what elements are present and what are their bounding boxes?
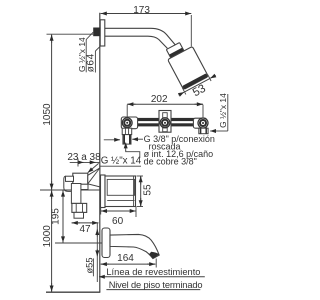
valve outlet cone (88, 168, 100, 187)
center fitting screw (160, 118, 170, 128)
svg-text:202: 202 (151, 94, 168, 105)
extension line arm height (47, 33, 94, 35)
spout elbow horizontal tube (66, 176, 74, 181)
leader to thread block (86, 32, 93, 39)
bath spout (110, 234, 159, 258)
center fitting bottom tab (163, 128, 168, 132)
svg-text:G ½"x 14: G ½"x 14 (101, 156, 142, 167)
dimension 1000 line (51, 190, 53, 291)
dimension 53 ticks (182, 88, 185, 94)
dimension 47 line (72, 222, 99, 224)
center fitting top tab (163, 113, 168, 118)
dimension 55 ext lines (137, 175, 144, 177)
connector dark ring band (169, 48, 183, 58)
transfer valve body (105, 176, 136, 207)
svg-text:1000: 1000 (42, 225, 53, 248)
dimension 1050 line (51, 35, 53, 190)
center fitting body (159, 111, 171, 133)
floor line (46, 291, 100, 293)
svg-text:1050: 1050 (42, 103, 53, 126)
transfer valve inner band (107, 200, 134, 202)
supply pipe bars left pair (135, 118, 160, 121)
svg-text:195: 195 (51, 208, 62, 225)
wall line (99, 13, 101, 293)
dimension 55 line (140, 176, 142, 207)
svg-text:164: 164 (117, 253, 134, 264)
left fitting nipple threaded (122, 128, 132, 134)
nipple pointer arrow right / leader G 3/8 (132, 138, 143, 140)
head spray face dark band (182, 73, 208, 89)
label underline top left (85, 40, 87, 73)
svg-text:Línea de revestimiento: Línea de revestimiento (106, 267, 200, 277)
svg-text:173: 173 (133, 5, 150, 16)
underline diameter 55 (92, 258, 94, 276)
spout elbow outer curve (64, 176, 72, 191)
spout wall flange (102, 228, 110, 258)
valve outlet funnel box (73, 173, 88, 184)
leader to flange (95, 46, 100, 51)
combined ext and diam55 line (96, 223, 98, 282)
shower head group (157, 35, 221, 106)
right elbow fitting (193, 118, 206, 128)
left fitting nipple lower (123, 135, 131, 145)
spout elbow nut (72, 203, 87, 212)
diagonal leader to funnel corner (88, 163, 99, 172)
spout tip dark band (149, 252, 159, 259)
dimension 60 ext lines (100, 208, 102, 215)
extension line head top (190, 15, 192, 47)
label underline 64 (94, 51, 96, 73)
transfer valve inner recess (107, 179, 134, 195)
dimension 53 line (185, 79, 210, 92)
supply pipe bars right pair (170, 118, 194, 121)
svg-text:53: 53 (191, 83, 208, 100)
dimension 173 line (101, 13, 192, 15)
right fitting nipple (199, 128, 208, 134)
shower head body (168, 46, 209, 89)
extension line 23a38 (77, 159, 79, 167)
dimension 202 line (127, 103, 203, 105)
elbow body right edge step (81, 184, 88, 190)
underline revestimiento (104, 276, 205, 278)
shower arm tube (105, 28, 176, 45)
dimension 60 line (101, 210, 136, 212)
svg-text:60: 60 (112, 216, 124, 227)
valve centerline extension (40, 189, 100, 191)
label underline right (227, 94, 229, 131)
dimension 164 ext line (155, 259, 157, 268)
left elbow fitting (121, 117, 137, 129)
label underline center (100, 165, 141, 167)
extension line right fitting (202, 105, 204, 118)
spout elbow tip (74, 212, 84, 218)
dimension 164 line (101, 263, 156, 265)
transfer valve right cap line (133, 176, 135, 207)
arm thread block behind wall (93, 28, 100, 37)
transfer valve left cap (101, 175, 106, 208)
extension line left fitting (126, 105, 128, 118)
arm-head connector (166, 42, 184, 57)
svg-text:G ½"x 14: G ½"x 14 (218, 93, 228, 128)
dimension 195 line (62, 190, 64, 242)
spout centerline extension (55, 242, 102, 244)
spout elbow vertical tube (71, 184, 81, 204)
svg-text:de cobre 3/8": de cobre 3/8" (144, 156, 197, 166)
svg-text:55: 55 (142, 184, 153, 196)
underline nivel piso (106, 289, 200, 291)
svg-text:ø64: ø64 (85, 53, 96, 72)
svg-text:Nivel de piso terminado: Nivel de piso terminado (109, 280, 203, 290)
nipple pointer arrow left (104, 139, 120, 141)
shower arm wall flange (100, 20, 105, 46)
svg-text:23 a 38: 23 a 38 (67, 152, 101, 163)
leader to right nipple (214, 130, 228, 132)
svg-text:47: 47 (79, 224, 91, 235)
dimension 23a38 line (70, 161, 100, 163)
bent leader to nipple bottom (126, 151, 140, 159)
